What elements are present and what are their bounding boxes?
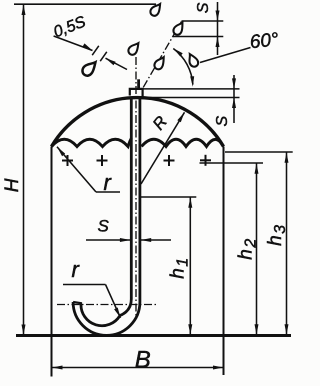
svg-text:S: S [195, 2, 212, 13]
svg-text:S: S [98, 216, 110, 235]
svg-text:H: H [2, 178, 23, 192]
svg-text:60°: 60° [249, 29, 280, 53]
svg-text:B: B [135, 347, 151, 374]
svg-text:S: S [214, 116, 231, 127]
